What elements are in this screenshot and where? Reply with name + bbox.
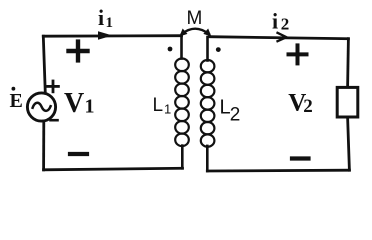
wire: top right horizontal [210, 37, 349, 39]
svg-text:V: V [64, 88, 84, 119]
svg-text:M: M [187, 8, 203, 29]
svg-text:1: 1 [164, 102, 171, 117]
polarity − of V1 [70, 152, 87, 156]
dot mark of L1 [168, 47, 173, 52]
current arrow i2 [278, 33, 287, 41]
svg-text:2: 2 [281, 15, 290, 34]
label L1 [153, 95, 172, 117]
L1 bottom stub [181, 146, 184, 169]
wire: left vertical top [43, 36, 45, 93]
inductor L2 [201, 60, 215, 147]
polarity + of V2 [289, 45, 307, 63]
label E dot [10, 87, 23, 112]
L2 bottom stub [206, 146, 209, 171]
svg-text:i: i [272, 9, 278, 34]
wire: bottom left horizontal [44, 168, 183, 170]
polarity − of source [51, 119, 58, 122]
polarity + of V1 [69, 42, 88, 61]
label L2 [220, 97, 241, 126]
svg-text:1: 1 [85, 96, 95, 118]
wire: right vertical top [346, 39, 350, 88]
svg-text:E: E [10, 90, 23, 112]
svg-text:1: 1 [106, 15, 114, 31]
L1 top stub [180, 36, 183, 59]
wire: right vertical bottom [348, 117, 350, 170]
mutual inductance arc M [180, 29, 210, 36]
label V2 [288, 90, 313, 117]
label i2 [272, 9, 289, 34]
wire: top left horizontal [43, 34, 181, 37]
load resistor [337, 87, 358, 117]
svg-text:2: 2 [303, 96, 313, 117]
svg-text:L: L [153, 95, 164, 116]
svg-text:2: 2 [230, 105, 241, 126]
polarity + of source [48, 81, 59, 92]
svg-text:i: i [98, 5, 104, 30]
wire: bottom right horizontal [207, 169, 349, 173]
label i1 [98, 5, 113, 31]
wire: left vertical bottom [42, 121, 45, 170]
polarity − of V2 [292, 156, 309, 160]
voltage source E (AC) [27, 93, 55, 121]
L2 top stub [206, 37, 209, 61]
current arrow i1 [98, 31, 113, 39]
inductor L1 [175, 59, 189, 147]
dot mark of L2 [216, 47, 221, 52]
label V1 [64, 88, 95, 119]
